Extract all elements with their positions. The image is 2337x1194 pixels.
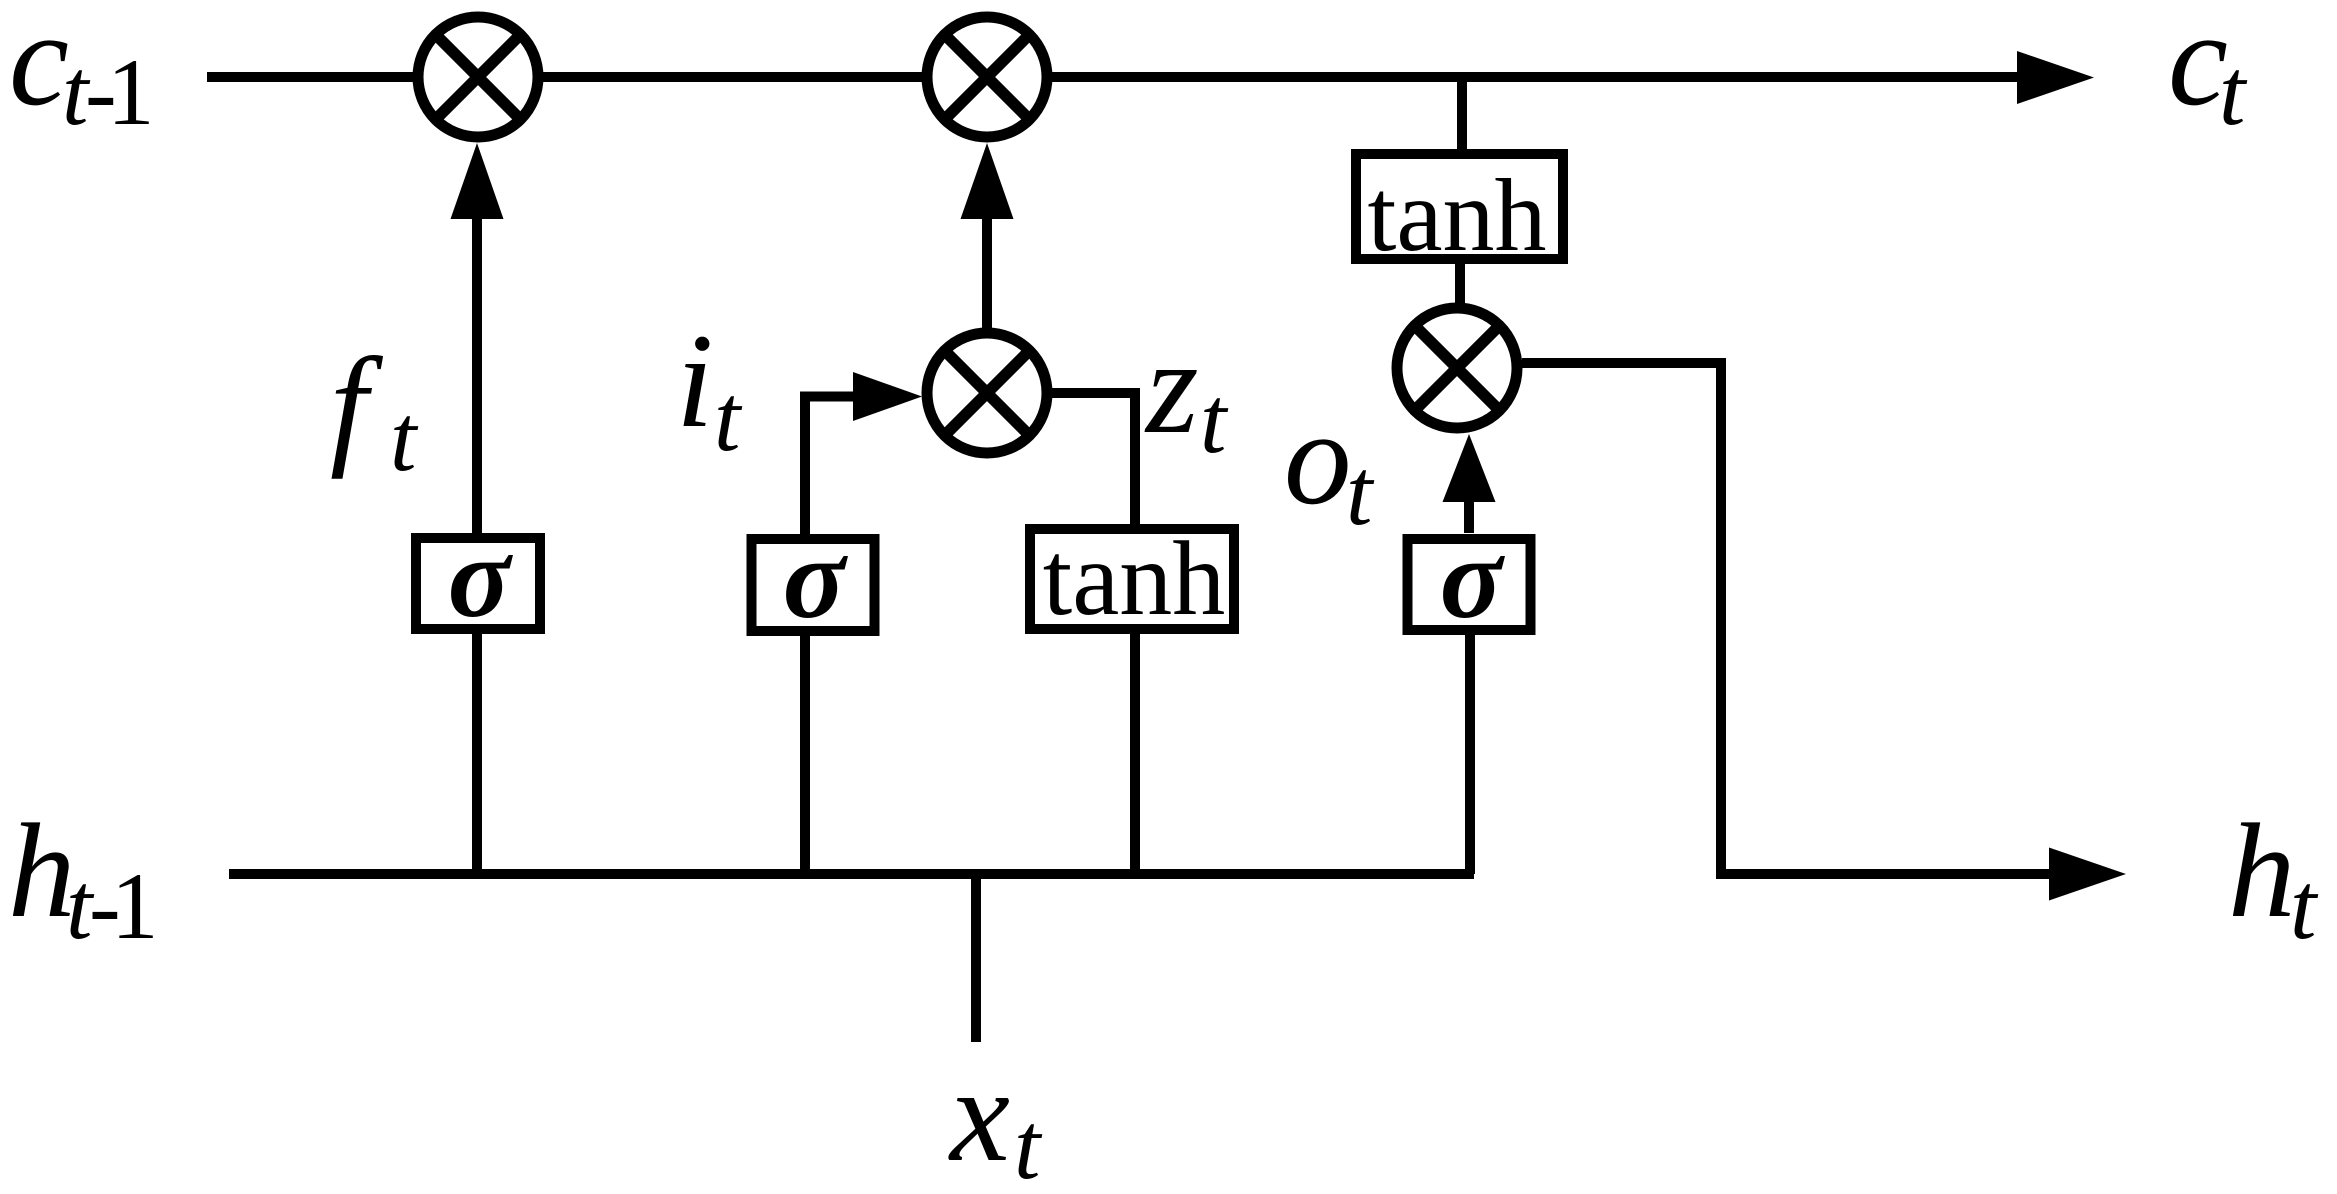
- svg-text:σ: σ: [1440, 515, 1506, 643]
- label f_t: [330, 331, 419, 491]
- svg-text:c: c: [9, 0, 69, 134]
- svg-text:t: t: [714, 365, 743, 471]
- svg-text:tanh: tanh: [1043, 520, 1226, 637]
- svg-text:σ: σ: [783, 515, 849, 643]
- node: multiplier i_t*z_t: [927, 333, 1047, 453]
- wire: x_t input stem: [971, 874, 981, 1042]
- svg-text:t: t: [2219, 39, 2248, 145]
- label x_t: [948, 1041, 1043, 1194]
- node: multiplier (forget gate) on c-line: [418, 17, 538, 137]
- wire: tanh(z) down to h-line: [1130, 634, 1140, 874]
- wire: multiplier i*z right output down to tanh(z) box: [1052, 393, 1135, 524]
- svg-text:1: 1: [107, 39, 155, 145]
- label h_{t-1}: [8, 797, 159, 959]
- svg-text:σ: σ: [448, 514, 514, 642]
- wire: c-line branch down into tanh box (output path): [1457, 77, 1467, 154]
- svg-text:tanh: tanh: [1367, 158, 1546, 273]
- wire: arrow from sigma(o) up into output multiplier: [1443, 434, 1496, 533]
- svg-text:f: f: [330, 331, 384, 480]
- svg-text:t: t: [390, 385, 419, 491]
- svg-text:t: t: [1014, 1093, 1043, 1194]
- node: adder/multiplier (input contribution) on c-line: [927, 17, 1047, 137]
- wire: arrow from sigma(f) up into forget multiplier: [451, 143, 504, 533]
- svg-text:t: t: [1346, 439, 1375, 545]
- label z_t: [1144, 313, 1229, 473]
- wire: sigma(i) down to h-line: [800, 634, 810, 874]
- svg-text:z: z: [1144, 313, 1199, 462]
- wire: h-line from h_{t-1}: [229, 869, 1474, 879]
- label c_t: [2168, 0, 2248, 145]
- label c_{t-1}: [9, 0, 155, 145]
- svg-text:i: i: [676, 307, 714, 456]
- box: sigma gate i: [752, 515, 875, 643]
- node: multiplier o_t*tanh(c_t): [1397, 308, 1517, 428]
- wire: sigma(f) down to h-line: [472, 634, 482, 874]
- label i_t: [676, 307, 743, 471]
- wire: output multiplier right and down to h_t output with arrow: [1522, 363, 2126, 901]
- box: sigma gate f: [416, 514, 540, 642]
- svg-text:x: x: [948, 1041, 1010, 1190]
- label o_t: [1284, 384, 1375, 545]
- wire: sigma(o) down to h-line: [1465, 635, 1475, 874]
- wire: arrow from multiplier i*z up into c-line multiplier: [961, 143, 1014, 328]
- wire: from sigma(i) up and right with arrow into multiplier i*z: [805, 372, 922, 534]
- box: sigma gate o: [1408, 515, 1531, 643]
- svg-text:t: t: [2290, 853, 2319, 959]
- label h_t: [2228, 797, 2319, 959]
- wire: c-line from c_{t-1} to c_t: [207, 51, 2094, 104]
- svg-text:1: 1: [111, 853, 159, 959]
- svg-text:o: o: [1284, 384, 1352, 533]
- box: tanh on c_t output branch: [1356, 154, 1563, 273]
- svg-text:h: h: [2228, 797, 2296, 946]
- svg-text:t: t: [1200, 367, 1229, 473]
- wire: tanh output down into output multiplier: [1455, 259, 1465, 308]
- box: tanh (candidate z): [1030, 520, 1234, 637]
